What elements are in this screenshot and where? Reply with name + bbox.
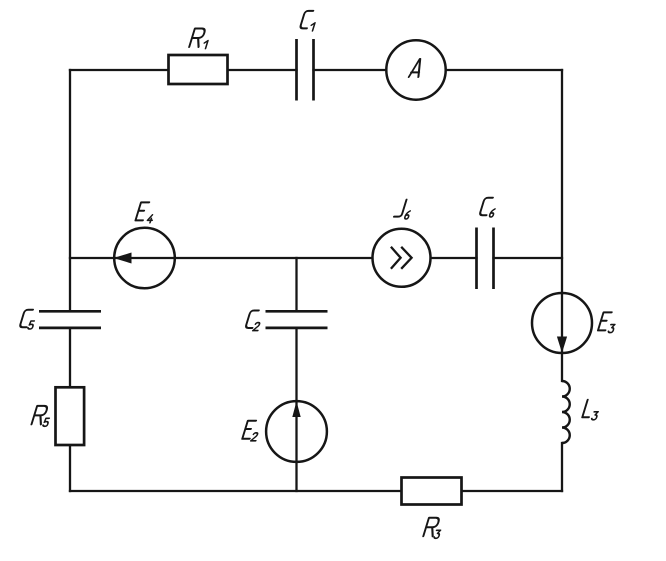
label C2	[245, 311, 260, 331]
wire top: left corner to R1	[70, 69, 169, 71]
source E2 (circle with up arrow on wire)	[266, 401, 327, 462]
label R5	[32, 406, 50, 426]
wire top: ammeter A to top-right corner	[446, 69, 563, 71]
wire left: C5 to R5	[69, 328, 71, 387]
wire middle vertical: node to C2	[295, 258, 297, 311]
wire middle horizontal: C6 to right wire	[494, 257, 563, 259]
resistor R1	[169, 55, 228, 84]
arrowhead E2	[292, 401, 300, 417]
source E3 (circle with down arrow on wire)	[532, 293, 592, 353]
current source J6 (circle with double chevron)	[373, 229, 431, 287]
capacitor C1	[297, 39, 314, 101]
label E4	[136, 202, 154, 222]
ammeter U1 A	[386, 40, 445, 99]
wire left: R5 to bottom-left corner	[69, 445, 71, 491]
label C6	[479, 198, 495, 217]
wire bottom: bottom-left corner to R3	[70, 490, 402, 492]
wire bottom: R3 to bottom-right corner	[462, 490, 563, 492]
inductor L3	[562, 381, 570, 443]
wire top: C1 to ammeter A	[314, 69, 387, 71]
wire right: top-right corner down through E3 to L3	[561, 70, 563, 381]
wire right: L3 to bottom-right corner	[561, 443, 563, 491]
resistor R3	[402, 478, 462, 505]
capacitor C6	[477, 228, 494, 290]
wire left: top-left corner down to C5	[69, 70, 71, 311]
wire middle vertical: C2 through E2 to bottom wire	[295, 328, 297, 491]
label C5	[20, 310, 35, 329]
source E4 (circle with left arrow on wire)	[114, 228, 175, 289]
capacitor C2	[266, 311, 328, 328]
label J6	[394, 200, 410, 219]
label C1	[300, 11, 315, 31]
arrowhead E4	[114, 253, 132, 264]
wire middle horizontal: left wire through E4 to J6	[70, 257, 373, 259]
resistor R5	[56, 387, 85, 445]
arrowhead E3	[557, 337, 567, 354]
label R1	[189, 29, 208, 49]
wire top: R1 to C1	[228, 69, 297, 71]
wire middle horizontal: J6 to C6	[431, 257, 477, 259]
label L3	[582, 400, 598, 420]
label E2	[242, 421, 258, 441]
label R3	[423, 518, 440, 539]
capacitor C5	[39, 311, 101, 328]
label E3	[598, 312, 615, 332]
